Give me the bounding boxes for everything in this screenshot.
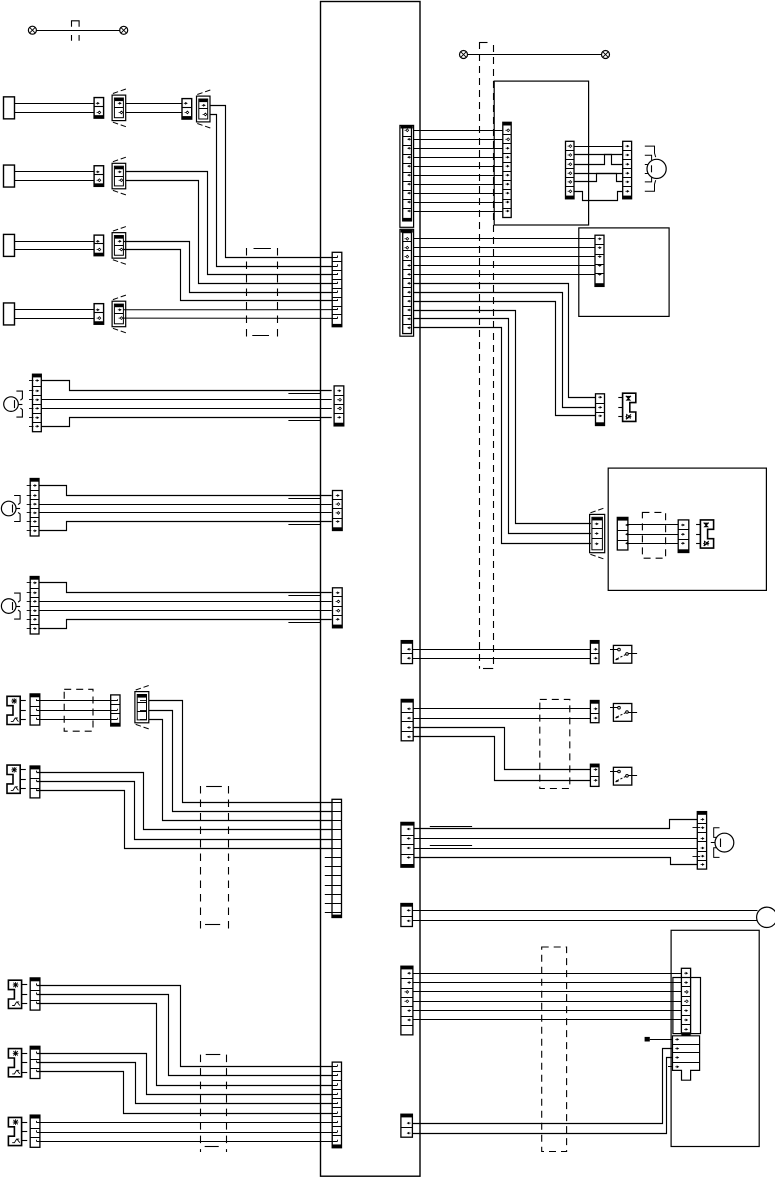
- wire CK pin3 to CL row: [413, 728, 590, 770]
- blower motor M5: [647, 159, 666, 178]
- connector E1: [30, 766, 40, 769]
- motor C: [1, 599, 16, 614]
- connector F3 flag: [590, 514, 605, 552]
- connector CK2: [590, 701, 599, 704]
- connector C2a: [94, 166, 104, 187]
- wire: [413, 247, 595, 249]
- wire M1: [414, 820, 697, 829]
- lamp socket connector C1b: [112, 95, 126, 121]
- harness boundary bottom tick: [483, 668, 493, 670]
- connector B1: [30, 479, 39, 482]
- connector C6: [595, 235, 604, 286]
- wire L6-R6: [574, 192, 623, 201]
- diode unit D9: [700, 520, 713, 548]
- wire Q2 to relay pin3: [412, 1058, 672, 1134]
- wire M4: [414, 858, 697, 865]
- junction box connector CR1a housing: [400, 125, 414, 227]
- clamp symbol: [72, 21, 80, 27]
- junction box connector CR1b: [403, 233, 412, 334]
- wire N2: [412, 920, 757, 922]
- harness dashed box B4: [200, 1055, 202, 1152]
- wire: [414, 130, 503, 132]
- motor M5 terminal stubs: [645, 146, 656, 157]
- wire: [37, 719, 118, 721]
- wire link E3-E4: [468, 54, 602, 56]
- wire L2-R3: [574, 155, 623, 165]
- wire: [414, 175, 503, 177]
- connector D3 flag: [135, 692, 149, 723]
- wire: [37, 710, 118, 712]
- unit box U4: [671, 930, 759, 1146]
- connector C8: [617, 517, 628, 520]
- bulb terminal T1: [4, 97, 15, 119]
- bulb terminal T4: [4, 303, 15, 325]
- connector F1: [30, 978, 40, 981]
- heater motor M6: [715, 833, 734, 852]
- relay pin4 stub: [668, 1066, 673, 1068]
- switch SK: [613, 704, 631, 722]
- wire C8-C9: [628, 524, 678, 526]
- junction box connector CL1: [332, 252, 342, 326]
- wire G pin5: [37, 1063, 333, 1104]
- bulb terminal T2: [4, 165, 15, 187]
- junction box J/B: [321, 2, 421, 1177]
- wire D pin2: [149, 711, 332, 812]
- sensor D: [7, 696, 20, 724]
- bulb terminal T3: [4, 234, 15, 256]
- wire: [413, 708, 590, 710]
- wire P: [413, 982, 682, 984]
- wire N1: [412, 910, 757, 912]
- unit box U3: [608, 468, 766, 590]
- wire: [41, 408, 331, 410]
- wire: [413, 649, 591, 651]
- wire H pin7: [37, 1122, 333, 1124]
- wire P: [413, 1019, 682, 1021]
- wire label mark: [430, 826, 472, 828]
- wire P: [413, 991, 682, 993]
- wire E pin6: [37, 791, 332, 849]
- connector CJ2: [590, 641, 599, 644]
- harness dashed box B6: [540, 699, 570, 788]
- diode unit D7: [623, 393, 636, 421]
- connector C9: [678, 520, 689, 553]
- wire: [413, 265, 595, 267]
- wire: [413, 658, 591, 660]
- wire: [413, 718, 590, 720]
- wire label mark: [288, 498, 320, 500]
- wire: [414, 202, 503, 204]
- connector CP2: [681, 968, 690, 1033]
- wire: [15, 309, 95, 311]
- wire: [39, 601, 332, 603]
- wire: [414, 166, 503, 168]
- lamp socket connector C4b: [112, 301, 126, 327]
- connector C1: [30, 577, 39, 580]
- terminal E1: [28, 26, 36, 34]
- wire row3 pin5: [124, 242, 333, 293]
- wire row1 pin2: [210, 115, 332, 267]
- wire E pin4: [37, 773, 332, 830]
- wire CR1b pin10 to F3 pin2: [413, 319, 591, 534]
- wire: [15, 249, 95, 251]
- junction box connector CP: [401, 966, 413, 969]
- wire Q1 to relay pin2: [412, 1049, 672, 1124]
- wire jog bottom: [41, 418, 331, 427]
- wire CR1b pin6 to C7 pin1: [413, 284, 595, 398]
- junction box connector CR1b housing: [400, 229, 414, 336]
- connector D2: [111, 695, 120, 726]
- wire: [15, 180, 95, 182]
- wire H pin8: [37, 1132, 333, 1134]
- lamp socket connector C3b: [112, 233, 126, 259]
- connector C5L: [566, 141, 575, 199]
- wire M3: [414, 848, 697, 850]
- wire CR1b pin9 to F3 pin1: [413, 311, 591, 524]
- wire C8-C9: [628, 543, 678, 545]
- connector C3a: [94, 235, 104, 256]
- connector H1: [30, 1115, 40, 1118]
- harness boundary top tick: [479, 42, 487, 44]
- harness dashed box B7: [542, 947, 567, 1152]
- harness dashed box B3: [200, 786, 202, 929]
- harness dashed box B1: [246, 248, 248, 341]
- wire: [37, 700, 118, 702]
- terminal E4: [602, 51, 610, 59]
- sensor H: [8, 1117, 21, 1145]
- junction box connector B2: [333, 491, 343, 531]
- connector C5a: [503, 122, 511, 125]
- wire: [15, 103, 95, 105]
- wire M2: [414, 838, 697, 840]
- wire jog top: [41, 381, 331, 391]
- connector A1: [33, 374, 42, 377]
- wire: [413, 274, 595, 276]
- wire L4-R5: [574, 174, 623, 182]
- junction box connector CQ: [401, 1114, 413, 1117]
- wire: [39, 512, 332, 514]
- wire G pin6: [37, 1072, 333, 1114]
- lamp socket connector C1d: [197, 96, 211, 122]
- connector C4a: [94, 304, 104, 325]
- sensor E: [7, 765, 20, 793]
- connector C1a: [94, 98, 104, 119]
- junction box connector CL2: [332, 799, 342, 917]
- wire label mark: [430, 845, 472, 847]
- wire CR1b pin8 to C7 pin3: [413, 302, 595, 416]
- harness dashed box B5: [642, 512, 665, 558]
- connector CL': [590, 764, 599, 767]
- wire P: [413, 1010, 682, 1012]
- motor A: [4, 397, 19, 412]
- wire label mark: [288, 524, 320, 526]
- relay R4 footprint: [673, 1036, 700, 1080]
- horn N: [757, 907, 775, 927]
- connector D1: [30, 694, 40, 697]
- wire: [126, 103, 182, 105]
- wire row2 pin4: [126, 181, 333, 284]
- wire jog top: [39, 486, 332, 496]
- switch SJ: [613, 645, 631, 663]
- wire row4 pin8: [124, 317, 333, 319]
- unit box U5: [494, 81, 588, 225]
- connector C5R: [623, 141, 632, 199]
- wire label mark: [288, 420, 320, 422]
- wire: [126, 112, 182, 114]
- wire L1-R1: [574, 146, 623, 148]
- wire: [414, 193, 503, 195]
- wire: [41, 399, 331, 401]
- wire P: [413, 973, 682, 975]
- wire: [15, 112, 95, 114]
- wire jog top: [39, 583, 332, 593]
- wire: [15, 241, 95, 243]
- junction box connector CN: [401, 904, 413, 907]
- terminal square: [645, 1037, 650, 1042]
- wire: [414, 148, 503, 150]
- wire D pin1: [149, 701, 332, 803]
- terminal E3: [460, 51, 468, 59]
- junction box connector CM: [401, 822, 414, 825]
- wire L3-R2: [574, 155, 623, 165]
- junction box connector C2: [333, 588, 343, 628]
- wire F pin1: [37, 986, 333, 1067]
- harness dashed box B2: [64, 689, 93, 731]
- wire: [39, 504, 332, 506]
- wire row2 pin3: [126, 172, 333, 275]
- wire G pin4: [37, 1054, 333, 1095]
- wire: [39, 610, 332, 612]
- lamp socket connector C2b: [112, 163, 126, 189]
- wire: [414, 184, 503, 186]
- wire: [414, 211, 503, 213]
- junction box connector CJ: [401, 641, 412, 644]
- wire label mark: [288, 622, 320, 624]
- junction box connector CK: [401, 699, 413, 702]
- harness boundary dashed line left: [479, 42, 481, 669]
- junction box connector CR1a: [403, 127, 412, 221]
- wire: [413, 256, 595, 258]
- junction box connector A2: [334, 386, 344, 426]
- wire CR1b pin7 to C7 pin2: [413, 293, 595, 408]
- unit box U6: [579, 228, 669, 317]
- connector G1: [30, 1046, 40, 1049]
- wire label mark: [288, 393, 320, 395]
- harness boundary dashed line right: [493, 45, 495, 669]
- wire row4 pin7: [124, 309, 333, 311]
- wire H pin9: [37, 1141, 333, 1143]
- wire: [15, 318, 95, 320]
- wire: [15, 171, 95, 173]
- wire: [414, 139, 503, 141]
- wire E pin5: [37, 782, 332, 840]
- wire jog bottom: [39, 522, 332, 531]
- wire C8-C9: [628, 534, 678, 536]
- connector CM2: [697, 812, 706, 815]
- motor B: [1, 501, 16, 516]
- wire jog bottom: [39, 620, 332, 629]
- wire row3 pin6: [124, 250, 333, 301]
- wire link E1-E2: [37, 30, 120, 32]
- terminal E2: [120, 26, 128, 34]
- wire CR1b pin11 to F3 pin3: [413, 328, 591, 544]
- wire D pin3: [149, 720, 332, 821]
- wire F pin2: [37, 995, 333, 1076]
- wire label mark: [288, 595, 320, 597]
- connector C7: [596, 394, 605, 426]
- wire: [413, 238, 595, 240]
- wire CK pin4 to CL row: [413, 737, 590, 781]
- sensor F: [8, 980, 21, 1008]
- connector CP2 housing: [673, 978, 701, 1034]
- wire terminal to relay: [650, 1039, 673, 1041]
- wire F pin3: [37, 1004, 333, 1086]
- wire L5-R4: [574, 174, 623, 182]
- switch SL: [613, 767, 631, 785]
- wire P: [413, 1001, 682, 1003]
- wire row1 pin1: [210, 106, 332, 258]
- wire: [414, 157, 503, 159]
- junction box connector CL3: [332, 1062, 341, 1148]
- connector C1c: [182, 99, 192, 120]
- sensor G: [8, 1049, 21, 1077]
